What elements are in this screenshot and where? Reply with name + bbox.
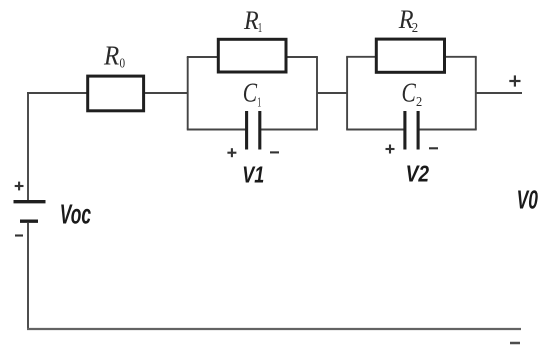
C1 minus polarity mark xyxy=(270,151,279,153)
svg-text:Voc: Voc xyxy=(60,198,91,229)
wire block1 bottom rail left of C1 xyxy=(187,129,247,131)
C1 plus polarity mark xyxy=(227,148,236,157)
wire output (to + terminal) xyxy=(476,92,522,94)
wire block1 right vertical xyxy=(316,57,318,130)
label C2 xyxy=(402,77,423,109)
battery Voc negative short plate xyxy=(20,219,38,222)
wire block2 bottom rail left of C2 xyxy=(346,129,405,131)
wire block2 top rail xyxy=(346,56,477,58)
capacitor C2 left plate xyxy=(403,111,406,150)
wire left vertical from top node down to battery + plate xyxy=(27,92,29,200)
node A: RC block 1 left vertical xyxy=(187,57,189,130)
capacitor C1 right plate xyxy=(258,111,261,150)
resistor R2 xyxy=(376,39,444,72)
svg-text:2: 2 xyxy=(416,94,422,109)
battery plus polarity mark xyxy=(15,182,24,191)
svg-text:1: 1 xyxy=(258,20,263,35)
wire battery to bottom rail xyxy=(27,223,29,329)
resistor R0 xyxy=(88,76,144,111)
label C1 xyxy=(243,77,261,109)
label R0 xyxy=(103,40,125,71)
svg-text:R: R xyxy=(243,6,259,35)
wire block1 to block2 xyxy=(317,92,347,94)
bottom-right minus terminal mark xyxy=(510,342,520,345)
wire R0 to RC block 1 xyxy=(145,92,188,94)
battery Voc positive long plate xyxy=(14,200,46,203)
wire block1 bottom rail right of C1 xyxy=(260,129,318,131)
capacitor C2 right plate xyxy=(417,111,420,150)
resistor R1 xyxy=(218,39,286,72)
svg-text:1: 1 xyxy=(257,94,261,109)
node B: RC block 2 left vertical xyxy=(346,57,348,130)
output plus terminal mark xyxy=(509,75,520,86)
wire block2 right vertical xyxy=(475,57,477,130)
wire block1 top rail xyxy=(187,56,318,58)
capacitor C1 left plate xyxy=(245,111,248,150)
svg-text:V0: V0 xyxy=(517,187,538,215)
label R1 xyxy=(243,6,262,35)
svg-text:V2: V2 xyxy=(406,161,430,187)
wire bottom rail xyxy=(27,328,521,330)
battery minus polarity mark xyxy=(15,234,23,236)
svg-text:0: 0 xyxy=(120,57,126,72)
svg-text:2: 2 xyxy=(412,20,418,35)
svg-text:C: C xyxy=(243,77,258,107)
C2 minus polarity mark xyxy=(429,147,438,149)
svg-text:R: R xyxy=(103,40,120,70)
C2 plus polarity mark xyxy=(386,145,395,154)
svg-text:V1: V1 xyxy=(242,162,264,188)
wire block2 bottom rail right of C2 xyxy=(418,129,477,131)
svg-text:C: C xyxy=(402,77,417,107)
label R2 xyxy=(398,5,418,35)
wire top-left horizontal (node between Voc and R0) xyxy=(27,92,88,94)
